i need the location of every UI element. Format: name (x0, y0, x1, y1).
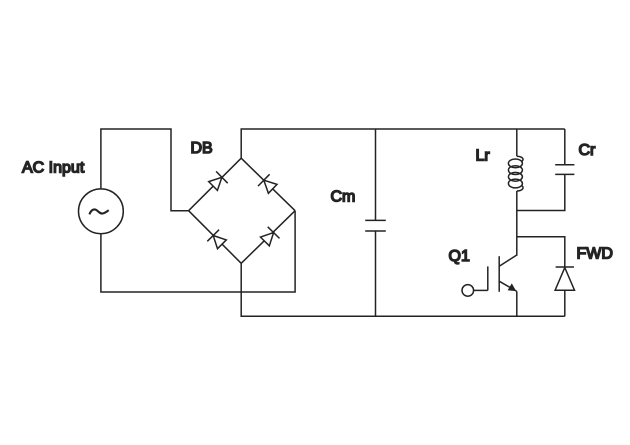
wire bridge top corner to positive DC top rail (241, 129, 565, 158)
diode D3 (bridge lower-left arm, anode at bottom corner) (189, 211, 242, 264)
diode D2 (bridge upper-right arm, anode at right corner) (241, 158, 295, 211)
capacitor Cm (365, 220, 386, 231)
svg-text:Cm: Cm (331, 189, 356, 206)
svg-text:DB: DB (191, 140, 213, 157)
wire Q1 collector node to FWD cathode lead (517, 237, 565, 267)
svg-text:Lr: Lr (476, 148, 491, 165)
wire Cr top lead (564, 129, 566, 165)
svg-text:Q1: Q1 (449, 248, 470, 265)
wire Q1 emitter lead to bottom rail (516, 291, 518, 316)
inductor Lr (508, 156, 523, 191)
svg-text:AC Input: AC Input (22, 159, 85, 176)
capacitor Cr (555, 165, 574, 175)
wire Cm bottom lead (375, 231, 377, 316)
wire bridge bottom corner to negative DC bottom rail (241, 263, 565, 316)
diode D1 (bridge upper-left arm, anode at left corner) (189, 158, 242, 211)
wire Lr top lead (516, 129, 518, 156)
AC source V1 (AC Input sine source) (79, 189, 124, 234)
wire Cm top lead (375, 129, 377, 220)
wire Lr bottom lead to Q1 collector node (516, 191, 518, 256)
transistor Q1 (IGBT) (462, 255, 517, 296)
diode D4 (bridge lower-right arm, anode at bottom corner) (241, 211, 295, 264)
diode FWD (freewheeling diode, cathode up) (555, 267, 574, 290)
svg-text:Cr: Cr (579, 142, 597, 159)
wire FWD anode lead to bottom rail (564, 290, 566, 316)
wire AC source bottom terminal to bridge right corner (101, 211, 295, 292)
svg-text:FWD: FWD (577, 246, 613, 263)
wire AC source top terminal to bridge left corner (101, 129, 189, 211)
wire Cr bottom lead to Lr bottom junction (517, 174, 565, 210)
